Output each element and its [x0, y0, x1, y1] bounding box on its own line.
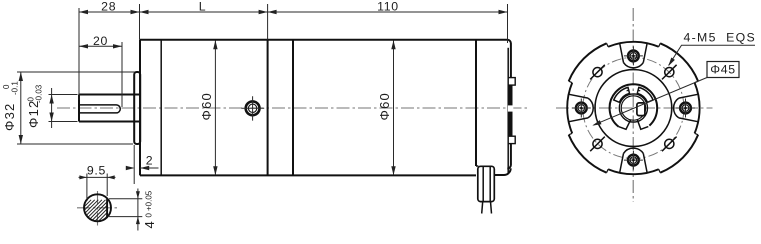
dim Phi60 — [214, 41, 216, 176]
svg-text:Φ60: Φ60 — [377, 92, 392, 120]
terminal bump upper on rear cap — [508, 78, 515, 86]
dim 9.5 — [79, 174, 116, 200]
clamp screw — [680, 103, 691, 114]
svg-text:Φ32: Φ32 — [2, 103, 17, 131]
wire: motor front flange line — [292, 40, 294, 176]
clamp screw — [576, 103, 587, 114]
svg-text:2: 2 — [146, 154, 154, 168]
brush card dark band — [509, 85, 513, 136]
shaft outline — [79, 95, 140, 122]
svg-text:-0.03: -0.03 — [35, 84, 44, 103]
svg-text:110: 110 — [377, 0, 399, 13]
terminal bump lower on rear cap — [508, 136, 515, 143]
svg-text:28: 28 — [101, 0, 116, 13]
keyway block — [637, 103, 645, 116]
mounting pocket — [674, 98, 679, 118]
label Phi45 box — [707, 62, 739, 78]
gearbox boss circle — [595, 70, 672, 147]
dim Phi32 — [17, 72, 135, 144]
hub claw left — [614, 87, 630, 102]
svg-text:4-M5 EQS: 4-M5 EQS — [684, 31, 757, 45]
front view horizontal centerline — [556, 107, 713, 109]
M5 tapped hole — [593, 139, 602, 148]
wire: connector recess step — [476, 165, 478, 167]
shaft milled flat slot — [79, 105, 120, 113]
extension lines for top dims — [79, 4, 508, 100]
section detail centerlines — [77, 191, 118, 229]
corner bulge arcs — [660, 135, 698, 173]
svg-text:20: 20 — [93, 34, 108, 48]
wire: motor rear housing edge — [475, 40, 477, 166]
mounting pocket — [624, 63, 644, 68]
dim Phi60 — [393, 41, 395, 176]
wire: gearbox front face vertical — [139, 40, 141, 176]
shaft circle — [621, 96, 645, 120]
M5 tapped hole — [665, 139, 674, 148]
svg-text:L: L — [199, 0, 207, 13]
clamp screw — [628, 51, 639, 62]
M5 tapped hole — [665, 68, 674, 77]
shaft cross-section circle — [84, 194, 111, 221]
wire: rear cap bottom edge with rounded corner — [494, 168, 510, 175]
screw head on gearbox — [241, 96, 264, 120]
dim 4 +0.05/0 — [109, 189, 142, 231]
svg-text:4: 4 — [142, 220, 157, 228]
dim Phi12 — [49, 88, 78, 128]
wire: gearbox/motor interface line — [267, 40, 269, 176]
clamp screw — [628, 155, 639, 166]
horizontal centerline of side view axis — [57, 107, 528, 109]
bolt circle dash-dot — [583, 57, 684, 158]
Phi32 boss plate — [134, 72, 140, 144]
connector block — [478, 166, 495, 201]
lead wires — [482, 202, 492, 214]
front view vertical centerline — [632, 8, 634, 202]
wire: housing bottom edge — [140, 174, 476, 176]
mounting pocket — [624, 148, 644, 153]
svg-text:-0.1: -0.1 — [10, 81, 19, 95]
svg-text:9.5: 9.5 — [87, 164, 106, 178]
M5 tapped hole — [593, 68, 602, 77]
wire: gearbox+motor housing top outline and rear cap edge — [140, 40, 511, 169]
flange rim arcs at cardinal sides — [695, 83, 700, 134]
mounting pocket — [588, 98, 593, 118]
svg-text:0: 0 — [145, 213, 154, 218]
dim 28/L/110 line — [79, 11, 508, 13]
wire: rear cap inner face line — [507, 48, 509, 173]
shaft bore circle — [619, 94, 647, 122]
wire: gearbox internal joint line — [160, 40, 162, 176]
shaft flat chord — [106, 199, 108, 217]
ring fang left — [619, 120, 631, 129]
svg-text:+0.05: +0.05 — [145, 190, 154, 211]
svg-text:Φ45: Φ45 — [710, 63, 736, 77]
hub retaining ring — [610, 84, 658, 126]
leader for Phi45 — [594, 78, 708, 126]
hub claw right — [637, 87, 653, 102]
svg-text:Φ60: Φ60 — [199, 92, 214, 120]
dim 2 (boss protrusion) — [134, 145, 158, 184]
ring fang right — [637, 120, 648, 129]
bearing notch in dark band — [508, 105, 513, 111]
dim 20 — [79, 42, 122, 107]
